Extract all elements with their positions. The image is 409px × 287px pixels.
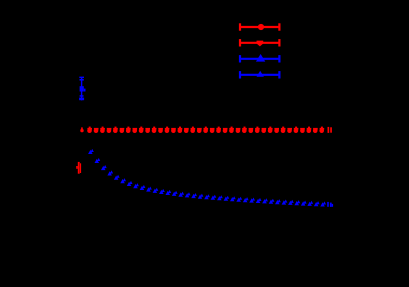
red data series: flat row of overlapping circle+pentagon markers xyxy=(80,127,324,133)
legend entry 1: red circle series xyxy=(239,23,280,30)
legend entry 3: blue large triangle series xyxy=(239,55,280,63)
red series end error-bar pair xyxy=(328,127,332,133)
red second-series point with large error bar at left edge xyxy=(76,162,81,174)
blue second-series points with large error bars at left edge xyxy=(79,77,85,101)
legend entry 4: blue small triangle series xyxy=(239,71,280,78)
blue series end error-bar pair xyxy=(327,202,333,207)
legend entry 2: red pentagon series xyxy=(239,39,280,46)
blue data series: decaying curve of overlapping triangle pairs xyxy=(88,149,326,207)
